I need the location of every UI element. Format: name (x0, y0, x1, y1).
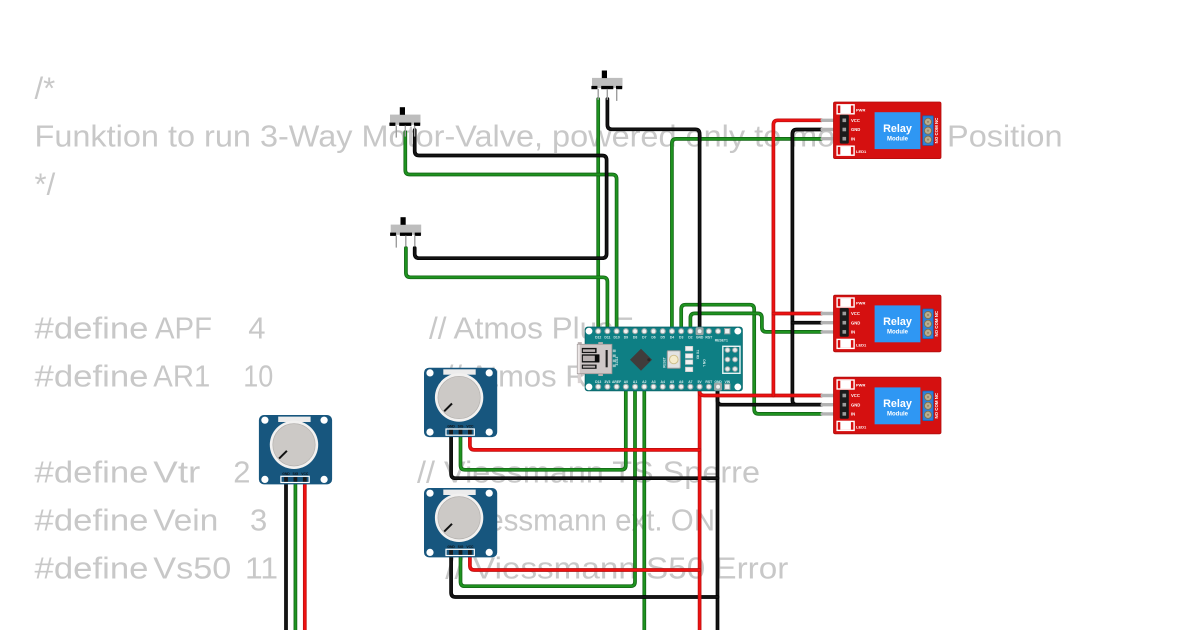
svg-text:GND: GND (851, 402, 860, 407)
wire pot P1 GND down off-canvas (black) (284, 480, 288, 630)
svg-text:*/: */ (35, 167, 56, 202)
svg-text:A3: A3 (651, 380, 655, 384)
wire relay K2 GND branch (black) (792, 321, 821, 325)
svg-text:A5: A5 (670, 380, 674, 384)
wire nano GND bottom down off-canvas (black) (716, 387, 720, 630)
svg-text:#define: #define (35, 551, 149, 586)
svg-text:GND: GND (714, 380, 722, 384)
wire pot P3 GND to nano GND net (black) (451, 553, 717, 597)
svg-text:D2: D2 (688, 336, 692, 340)
svg-text:D3: D3 (679, 336, 683, 340)
svg-text:PWR: PWR (856, 301, 865, 306)
svg-text:#define: #define (35, 503, 149, 538)
svg-text:D8: D8 (633, 336, 637, 340)
leds (685, 346, 692, 351)
wire pot P3 SIG to nano A1 (green) (461, 387, 636, 586)
svg-text:A2: A2 (642, 380, 646, 384)
wire switch SW2 pin2 to nano D10 (green) (405, 132, 616, 331)
svg-text:2: 2 (233, 455, 250, 490)
svg-text:31313: 31313 (615, 356, 619, 365)
svg-text:APF: APF (155, 311, 212, 346)
wire nano D4 to relay K1 IN (green) (672, 139, 822, 331)
svg-text:D7: D7 (642, 336, 646, 340)
svg-text:// Viessmann S50 Error: // Viessmann S50 Error (445, 551, 788, 586)
svg-text:Module: Module (887, 412, 909, 418)
svg-text:3V3: 3V3 (604, 380, 610, 384)
svg-text:GND: GND (447, 425, 455, 429)
svg-text:VCC: VCC (466, 545, 474, 549)
svg-text:#define: #define (35, 311, 149, 346)
svg-text:VCC: VCC (851, 118, 860, 123)
svg-text:Vein: Vein (153, 503, 218, 538)
svg-text:LED1: LED1 (856, 149, 867, 154)
svg-text:Module: Module (887, 137, 909, 143)
wire pot P2 VCC to 5V net (red) (470, 433, 700, 450)
svg-text:AREF: AREF (612, 380, 621, 384)
svg-text:VCC: VCC (466, 425, 474, 429)
svg-text:D10: D10 (613, 336, 619, 340)
wire nano 5V down off-canvas (red) (698, 387, 702, 630)
svg-text:11: 11 (245, 551, 278, 586)
usb mini-b connector (577, 342, 619, 383)
svg-text:IN: IN (851, 330, 855, 335)
svg-text:GND: GND (447, 545, 455, 549)
svg-text:D5: D5 (661, 336, 665, 340)
svg-text:D4: D4 (670, 336, 674, 340)
svg-text:SIG: SIG (458, 425, 464, 429)
relay module K2 (821, 295, 942, 352)
svg-text:SIG: SIG (458, 545, 464, 549)
svg-text:GND: GND (696, 336, 704, 340)
svg-text:SIG: SIG (292, 472, 298, 476)
wire switch SW3 pin2 to nano D11 (green) (406, 248, 608, 331)
svg-text:IN: IN (851, 412, 855, 417)
svg-text:Module: Module (887, 330, 909, 336)
relay module K3 (821, 377, 942, 434)
svg-text:PWR: PWR (856, 108, 865, 113)
wire switch SW1 pin1 to nano D12 (green) (596, 99, 600, 331)
svg-text:LED1: LED1 (856, 342, 867, 347)
svg-text:#define: #define (35, 455, 149, 490)
wire relay K2 VCC branch (red) (773, 312, 821, 316)
svg-text:Relay: Relay (883, 316, 912, 328)
wire pot P2 SIG to nano A0 (green) (461, 387, 626, 470)
svg-text:Relay: Relay (883, 398, 912, 410)
wire nano 5V to relay K3 VCC (red) (700, 388, 822, 396)
svg-text:GND: GND (282, 472, 290, 476)
svg-text:VCC: VCC (851, 393, 860, 398)
wire pot P2 GND to nano GND net (black) (451, 433, 717, 479)
svg-text:ON L: ON L (702, 359, 706, 367)
svg-text:/*: /* (35, 71, 56, 106)
wire nano GND bottom to relay K3 GND (black) (718, 388, 822, 405)
svg-text:RST: RST (705, 336, 713, 340)
svg-text:A0: A0 (624, 380, 628, 384)
mcu chip (630, 349, 652, 371)
relay module K1 (821, 102, 942, 159)
svg-text:TX RX: TX RX (696, 350, 700, 360)
svg-text:VCC: VCC (851, 311, 860, 316)
potentiometer P2 (424, 368, 497, 437)
svg-text:#define: #define (35, 359, 149, 394)
svg-text:RESET: RESET (663, 357, 667, 368)
svg-text:A4: A4 (661, 380, 665, 384)
svg-text:// Viessmann TS Sperre: // Viessmann TS Sperre (417, 455, 760, 490)
wire relay K1 GND to relay K3 GND (black) (792, 130, 821, 405)
icsp header (723, 346, 740, 373)
wire pot P1 VCC down off-canvas (red) (303, 480, 307, 630)
svg-text:D11: D11 (604, 336, 610, 340)
svg-text:10: 10 (243, 359, 273, 394)
potentiometer P3 (424, 488, 497, 557)
wire switch SW2 pin3 to switch SW3 pin3 (black) (415, 130, 607, 258)
svg-text:NO COM NC: NO COM NC (934, 392, 939, 418)
svg-text:GND: GND (851, 127, 860, 132)
svg-text:VCC: VCC (301, 472, 309, 476)
svg-text:NO COM NC: NO COM NC (934, 310, 939, 336)
svg-text:AR1: AR1 (153, 359, 210, 394)
slide switch SW2 (389, 107, 420, 137)
code text overlay (35, 71, 1063, 586)
svg-text:RESET1: RESET1 (715, 338, 728, 342)
svg-text:Vtr: Vtr (153, 455, 200, 490)
svg-text:RST: RST (705, 380, 713, 384)
svg-text:A1: A1 (633, 380, 637, 384)
wire nano A2 down off-canvas (green) (642, 387, 646, 630)
svg-text:PWR: PWR (856, 383, 865, 388)
wire 5V riser to relay K1 VCC (red) (773, 120, 821, 395)
svg-text:4: 4 (248, 311, 265, 346)
wire pot P3 VCC to 5V net (red) (470, 553, 700, 570)
svg-text:D9: D9 (624, 336, 628, 340)
svg-text:Vs50: Vs50 (153, 551, 231, 586)
wire switch SW1 pin2 to nano GND top (black) (607, 99, 699, 331)
svg-text:VIN: VIN (724, 380, 730, 384)
svg-text:3: 3 (250, 503, 267, 538)
svg-text:A6: A6 (679, 380, 683, 384)
svg-text:D13: D13 (595, 380, 601, 384)
wire pot P1 SIG down off-canvas (green) (294, 480, 298, 630)
svg-text:D6: D6 (651, 336, 655, 340)
svg-text:5V: 5V (698, 380, 703, 384)
potentiometer P1 (259, 415, 332, 484)
svg-text:D12: D12 (595, 336, 601, 340)
svg-text:GND: GND (851, 320, 860, 325)
arduino nano U1 (577, 327, 742, 391)
wire nano D2 to relay K2 IN (green) (690, 313, 821, 332)
svg-text:Relay: Relay (883, 123, 912, 135)
reset button (667, 351, 680, 368)
wire nano D3 to relay K3 IN (green) (681, 305, 821, 414)
svg-text:NO COM NC: NO COM NC (934, 117, 939, 143)
svg-text:A7: A7 (688, 380, 692, 384)
slide switch SW1 (591, 71, 622, 101)
svg-text:LED1: LED1 (856, 424, 867, 429)
svg-text:IN: IN (851, 136, 855, 141)
slide switch SW3 (390, 217, 421, 247)
